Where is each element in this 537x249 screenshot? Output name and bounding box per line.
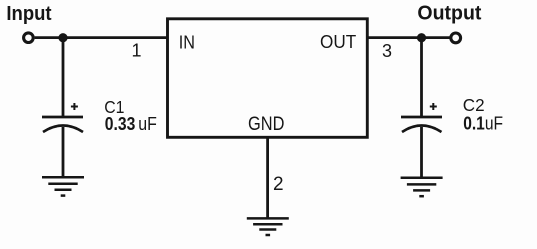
svg-text:GND: GND xyxy=(248,113,284,135)
node Input terminal xyxy=(24,33,34,43)
node Output terminal xyxy=(451,33,461,43)
svg-text:2: 2 xyxy=(273,174,284,195)
svg-text:IN: IN xyxy=(179,31,195,52)
wire output horizontal xyxy=(367,36,450,39)
wire GND vertical xyxy=(266,137,269,218)
svg-text:0.1: 0.1 xyxy=(463,114,485,134)
wire C1 lower xyxy=(62,127,65,177)
regulator U1 box xyxy=(168,19,368,138)
svg-text:C2: C2 xyxy=(463,95,485,115)
junction input node xyxy=(58,33,67,42)
wire input horizontal xyxy=(35,36,167,39)
svg-text:0.33: 0.33 xyxy=(105,114,136,134)
capacitor C2 xyxy=(401,103,442,132)
svg-text:uF: uF xyxy=(138,114,157,134)
svg-text:uF: uF xyxy=(485,114,503,134)
ground C2 xyxy=(401,178,443,196)
svg-text:1: 1 xyxy=(131,41,141,61)
capacitor C1 xyxy=(42,103,83,132)
svg-text:OUT: OUT xyxy=(320,31,356,52)
wire C2 lower xyxy=(420,127,423,178)
svg-text:Input: Input xyxy=(6,3,52,25)
svg-text:Output: Output xyxy=(417,3,481,25)
svg-text:3: 3 xyxy=(382,41,392,61)
wire C1 upper xyxy=(62,38,65,116)
ground C1 xyxy=(42,177,84,195)
junction output node xyxy=(417,33,426,42)
ground U1 GND xyxy=(247,218,289,235)
wire C2 upper xyxy=(420,38,423,116)
